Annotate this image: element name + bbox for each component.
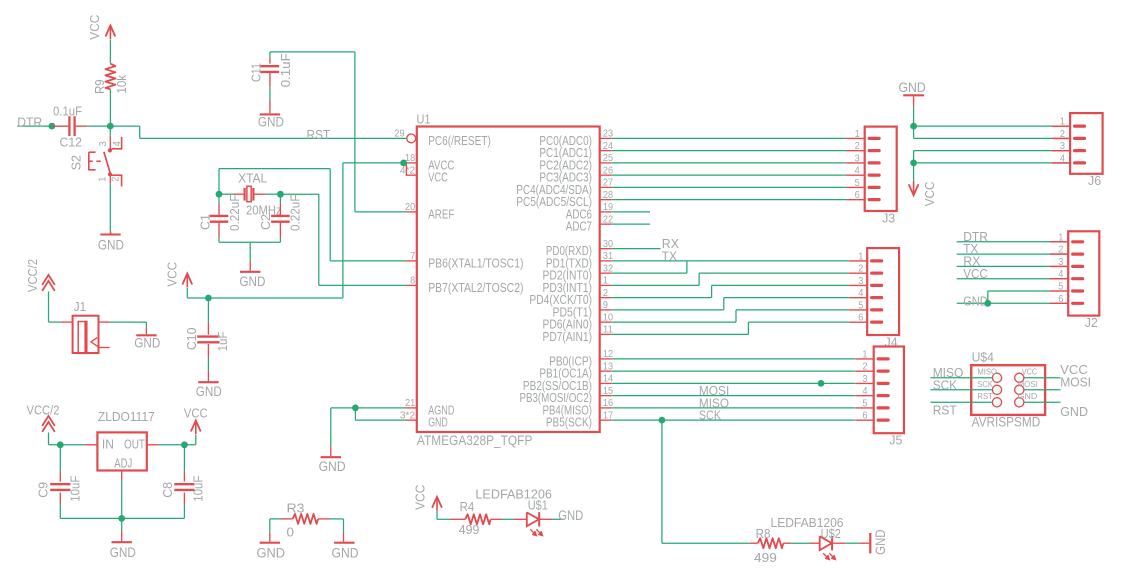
svg-text:VCC: VCC — [184, 405, 208, 420]
svg-text:0.22uF: 0.22uF — [287, 194, 302, 231]
svg-text:GND: GND — [1060, 404, 1088, 419]
svg-text:R9: R9 — [92, 79, 107, 94]
svg-text:PB5(SCK): PB5(SCK) — [546, 416, 592, 430]
svg-text:R3: R3 — [287, 501, 305, 516]
svg-text:GND: GND — [319, 459, 346, 474]
svg-text:RST: RST — [307, 127, 331, 142]
svg-text:0: 0 — [287, 525, 295, 540]
svg-text:20: 20 — [405, 202, 416, 213]
svg-text:4: 4 — [112, 141, 123, 147]
svg-text:1: 1 — [862, 349, 868, 360]
svg-text:3: 3 — [855, 153, 861, 164]
svg-text:5: 5 — [858, 300, 864, 311]
svg-text:OUT: OUT — [124, 438, 145, 452]
svg-text:VCC/2: VCC/2 — [25, 259, 40, 292]
svg-text:GND: GND — [257, 545, 286, 560]
svg-text:ADC7: ADC7 — [566, 220, 592, 234]
svg-text:4: 4 — [858, 288, 864, 299]
svg-text:5: 5 — [855, 178, 861, 189]
svg-text:GND: GND — [239, 274, 265, 289]
svg-text:J2: J2 — [1085, 315, 1098, 330]
svg-text:3: 3 — [858, 276, 864, 287]
svg-text:4*2: 4*2 — [400, 165, 416, 176]
svg-text:ZLDO1117: ZLDO1117 — [98, 409, 155, 424]
svg-text:499: 499 — [754, 550, 777, 565]
svg-text:10uF: 10uF — [190, 476, 205, 502]
svg-text:6: 6 — [855, 190, 861, 201]
svg-text:2: 2 — [603, 288, 609, 299]
svg-text:MOSI: MOSI — [1018, 379, 1038, 389]
svg-text:U1: U1 — [417, 112, 431, 127]
svg-text:GND: GND — [1018, 391, 1038, 401]
svg-text:1: 1 — [603, 276, 609, 287]
svg-text:2: 2 — [862, 362, 868, 373]
svg-text:10k: 10k — [114, 74, 129, 93]
svg-text:SCK: SCK — [977, 379, 993, 389]
svg-text:C8: C8 — [160, 482, 175, 498]
svg-text:XTAL: XTAL — [238, 170, 267, 185]
svg-text:ADJ: ADJ — [114, 457, 132, 471]
svg-text:IN: IN — [102, 438, 114, 452]
svg-text:R4: R4 — [460, 499, 475, 514]
svg-text:8: 8 — [410, 276, 416, 287]
svg-text:1: 1 — [855, 129, 861, 140]
svg-text:4: 4 — [862, 386, 868, 397]
svg-text:C9: C9 — [36, 482, 51, 498]
svg-text:GND: GND — [963, 293, 988, 308]
svg-text:10uF: 10uF — [67, 476, 82, 502]
svg-text:SCK: SCK — [699, 408, 721, 423]
svg-text:VCC: VCC — [922, 182, 937, 207]
svg-text:C11: C11 — [249, 63, 264, 82]
svg-text:AREF: AREF — [428, 207, 454, 221]
svg-text:0.22uF: 0.22uF — [227, 194, 242, 231]
svg-text:VCC: VCC — [963, 266, 988, 281]
svg-text:GND: GND — [98, 237, 124, 252]
svg-text:MOSI: MOSI — [1060, 374, 1091, 389]
svg-text:21: 21 — [405, 398, 416, 409]
svg-text:GND: GND — [134, 335, 160, 350]
svg-text:S2: S2 — [69, 155, 84, 170]
svg-text:1uF: 1uF — [215, 332, 230, 352]
svg-text:GND: GND — [258, 114, 284, 129]
svg-text:U$2: U$2 — [821, 526, 841, 541]
svg-text:499: 499 — [459, 522, 480, 537]
svg-text:GND: GND — [332, 545, 359, 560]
svg-text:U$4: U$4 — [972, 350, 994, 365]
svg-text:4: 4 — [855, 166, 861, 177]
svg-text:R8: R8 — [756, 526, 771, 541]
svg-text:0.1uF: 0.1uF — [278, 53, 293, 87]
svg-text:AVRISPSMD: AVRISPSMD — [972, 414, 1041, 429]
svg-text:PB7(XTAL2/TOSC2): PB7(XTAL2/TOSC2) — [428, 281, 523, 295]
svg-text:6: 6 — [858, 313, 864, 324]
svg-text:C2: C2 — [258, 214, 273, 230]
svg-text:GND: GND — [873, 529, 888, 555]
svg-text:J6: J6 — [1088, 173, 1101, 188]
svg-text:5: 5 — [862, 398, 868, 409]
svg-text:GND: GND — [899, 80, 927, 95]
svg-text:PD7(AIN1): PD7(AIN1) — [543, 330, 593, 344]
svg-text:TX: TX — [662, 248, 677, 263]
svg-text:2: 2 — [855, 141, 861, 152]
svg-text:GND: GND — [110, 545, 136, 560]
svg-text:2: 2 — [858, 264, 864, 275]
svg-text:7: 7 — [410, 251, 416, 262]
svg-text:VCC/2: VCC/2 — [27, 403, 60, 418]
svg-text:RST: RST — [933, 403, 957, 418]
svg-text:U$1: U$1 — [528, 498, 548, 513]
svg-text:ATMEGA328P_TQFP: ATMEGA328P_TQFP — [417, 433, 533, 448]
svg-text:PB6(XTAL1/TOSC1): PB6(XTAL1/TOSC1) — [428, 256, 523, 270]
svg-text:VCC: VCC — [428, 171, 448, 185]
svg-text:1: 1 — [97, 176, 108, 182]
svg-text:PC6(/RESET): PC6(/RESET) — [428, 134, 491, 148]
svg-text:3: 3 — [862, 374, 868, 385]
svg-text:6: 6 — [862, 411, 868, 422]
svg-text:C1: C1 — [198, 214, 213, 230]
svg-text:2: 2 — [111, 176, 122, 182]
svg-text:J1: J1 — [74, 299, 86, 314]
svg-text:C12: C12 — [60, 134, 83, 149]
svg-text:VCC: VCC — [165, 262, 180, 287]
svg-text:C10: C10 — [184, 328, 199, 351]
svg-text:1: 1 — [858, 251, 864, 262]
svg-text:J5: J5 — [889, 433, 902, 448]
svg-text:9: 9 — [603, 300, 609, 311]
svg-text:VCC: VCC — [87, 15, 102, 40]
svg-text:GND: GND — [196, 384, 222, 399]
svg-text:VCC: VCC — [412, 485, 427, 511]
svg-text:3: 3 — [98, 141, 109, 147]
svg-text:J3: J3 — [882, 210, 895, 225]
svg-text:VCC: VCC — [1022, 367, 1037, 377]
svg-text:GND: GND — [428, 416, 448, 430]
svg-text:SCK: SCK — [933, 377, 958, 392]
svg-text:MISO: MISO — [977, 367, 997, 377]
svg-text:RST: RST — [977, 391, 993, 401]
svg-text:0.1uF: 0.1uF — [53, 103, 82, 118]
svg-text:DTR: DTR — [17, 115, 42, 130]
svg-text:GND: GND — [558, 508, 583, 523]
